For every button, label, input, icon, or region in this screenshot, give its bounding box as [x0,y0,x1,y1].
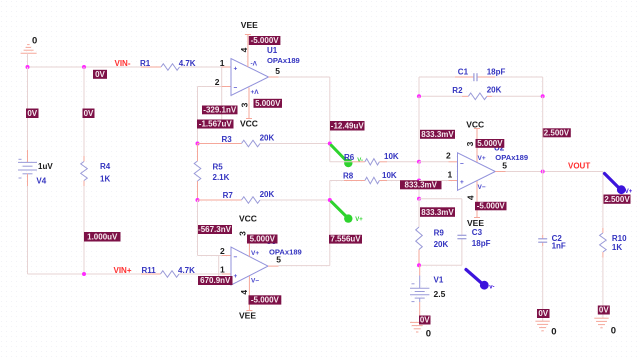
voltage box 0V (left rail) [26,109,39,119]
svg-text:2.1K: 2.1K [213,173,230,182]
svg-text:1K: 1K [612,243,622,252]
voltage source V4 battery symbol [18,161,37,163]
svg-text:VEE: VEE [467,218,484,228]
voltage box 0V (V1) [419,316,431,325]
capacitor C2 plates [538,238,547,240]
svg-text:VCC: VCC [240,118,258,128]
voltage box 0V (top wire) [93,70,107,79]
wire U2 output [495,171,505,173]
voltage box 833.3mV (R9 top) [420,207,455,217]
voltage box -567.3nV [197,225,232,234]
voltage box 2.500V (right rail) [542,128,571,137]
resistor R11 zigzag [161,271,180,278]
wire U1 label stub vertical [221,67,223,120]
svg-text:-5.000V: -5.000V [477,201,506,210]
svg-text:18pF: 18pF [487,67,506,76]
wire top rail y=67 [28,66,142,68]
svg-text:VCC: VCC [466,119,484,129]
resistor R10 zigzag [600,233,607,252]
U2 supply stub bottom (VEE) [476,181,478,218]
svg-text:−: − [460,160,464,167]
resistor R9 leads [418,199,420,227]
probe V+ blue (VOUT) [605,174,620,189]
resistor R7 leads [198,199,242,201]
svg-text:5.000V: 5.000V [250,235,276,244]
wire C3 bottom rail [419,264,462,266]
wire U1-out vertical [329,77,331,162]
resistor R6 zigzag [365,159,380,165]
node junction (542.7,171.5) [541,170,545,174]
capacitor C3 plates [457,234,466,236]
voltage box -329.1nV [202,106,238,115]
svg-text:+: + [234,273,238,280]
resistor R3 zigzag [242,140,261,147]
svg-text:670.9nV: 670.9nV [200,276,231,285]
svg-text:7.556uV: 7.556uV [330,235,361,244]
resistor R11 leads [141,273,161,275]
wire VOUT run [543,171,603,173]
svg-text:V+: V+ [355,217,363,223]
voltage box 833.3mV (pin1) [400,180,442,189]
svg-text:-567.3nV: -567.3nV [198,225,232,234]
svg-text:4: 4 [239,290,249,295]
resistor R3 leads [198,143,242,145]
probe V- blue (C3 bottom) [466,270,482,284]
svg-text:+: + [234,66,238,73]
svg-text:R3: R3 [222,135,233,144]
svg-text:20K: 20K [260,133,275,142]
svg-text:VOUT: VOUT [568,162,590,171]
svg-text:VIN-: VIN- [115,59,131,68]
capacitor C3 leads [461,199,463,236]
svg-text:833.3mV: 833.3mV [421,130,454,139]
wire U1 pin2 feedback [198,86,222,88]
svg-text:5.000V: 5.000V [255,99,281,108]
svg-text:20K: 20K [487,85,502,94]
svg-text:V−: V− [251,278,259,285]
resistor R1 zigzag [161,64,180,71]
svg-text:VEE: VEE [241,20,258,30]
svg-text:0: 0 [611,325,616,336]
V4 polarity marks [19,158,22,160]
svg-text:OPAx189: OPAx189 [267,56,300,65]
wire op2 output [268,265,279,267]
svg-text:-12.49uV: -12.49uV [331,122,365,131]
svg-text:-329.1nV: -329.1nV [203,105,237,114]
wire op2 label stub vertical [218,256,220,277]
node junction (419,198.8) [417,197,421,201]
svg-text:3: 3 [465,141,475,146]
wire C1 left vertical [418,77,420,96]
voltage box -5.000V (U1 VEE) [249,36,281,45]
resistor R9 zigzag [416,227,423,250]
voltage box 670.9nV [198,276,233,285]
svg-text:R5: R5 [213,162,224,171]
svg-text:2.500V: 2.500V [544,128,570,137]
svg-text:VIN+: VIN+ [114,266,132,275]
resistor R2 leads [419,95,462,97]
V1 polarity marks [412,283,415,285]
wire reference vertical x=419 [418,162,420,199]
svg-text:1: 1 [220,58,225,68]
svg-text:U1: U1 [267,46,278,55]
wire op2 pin2 stub [222,255,231,257]
wire ground stub [27,53,29,67]
svg-text:1: 1 [220,265,225,275]
svg-text:R4: R4 [100,162,111,171]
svg-text:0V: 0V [538,309,548,318]
node junction (419,265.2) [417,263,421,267]
svg-text:R7: R7 [223,191,234,200]
svg-text:0V: 0V [84,109,94,118]
svg-text:V+: V+ [251,250,259,257]
resistor R6 leads [330,161,352,163]
capacitor C2 leads [542,172,544,236]
svg-text:-5.000V: -5.000V [251,296,280,305]
svg-text:v-: v- [489,285,494,291]
voltage box 1.000uV [84,232,121,242]
svg-text:3: 3 [240,102,250,107]
voltage box 833.3mV (upper) [420,130,455,139]
voltage box -12.49uV [330,121,365,131]
svg-text:R6: R6 [344,153,355,162]
capacitor C1 plates [473,73,475,81]
svg-text:−: − [234,254,238,261]
voltage box 5.000V (op2 VCC) [247,235,278,244]
wire U1 pin2 stub [222,86,231,88]
ground 0 (top-left) [21,52,37,54]
svg-text:-Λ: -Λ [251,61,258,68]
svg-text:833.3mV: 833.3mV [405,180,438,189]
resistor R8 leads [330,180,344,182]
svg-text:2: 2 [215,77,220,87]
voltage box -5.000V (U2 VEE) [475,202,507,211]
svg-text:1nF: 1nF [552,241,566,250]
svg-text:R1: R1 [140,59,151,68]
svg-text:+: + [460,179,464,186]
svg-text:1: 1 [448,169,453,179]
probe V- green (R3 node) [331,145,346,160]
svg-text:5.000V: 5.000V [477,139,503,148]
node junction (84,67) [82,65,86,69]
svg-text:OPAx189: OPAx189 [495,153,528,162]
wire feedback left vertical x=419 [418,96,420,162]
wire bottom rail y=274 [28,273,142,275]
U1 supply stub top (VEE) [247,35,249,68]
wire left rail x=27.5 upper [27,67,29,150]
ground (V1) [410,321,424,323]
svg-text:4: 4 [466,195,476,200]
node junction (542.7,96.3) [541,94,545,98]
svg-text:V−: V− [478,184,486,191]
svg-text:18pF: 18pF [472,239,491,248]
svg-text:V-: V- [357,158,363,164]
wire C3 top rail [419,198,462,200]
wire U2 pin2 stub [419,161,449,163]
svg-text:1.000uV: 1.000uV [87,233,118,242]
wire right rail down to C2 [542,96,544,171]
svg-text:833.3mV: 833.3mV [421,208,454,217]
svg-text:+Λ: +Λ [251,89,260,96]
svg-text:0: 0 [551,326,556,337]
svg-text:10K: 10K [382,171,397,180]
probe V+ green (R7 node) [332,202,347,217]
wire op2 pin1 stub [222,273,231,275]
wire U1 pin1 stub [222,66,231,68]
node junction (27.5,67) [26,65,30,69]
svg-text:3: 3 [237,231,247,236]
svg-text:20K: 20K [260,190,275,199]
voltage box 2.500V (probe) [604,195,631,204]
node junction (329.8,200) [328,198,332,202]
svg-text:R2: R2 [452,86,463,95]
svg-text:2.5: 2.5 [434,289,446,299]
U2 supply stub top (VCC) [476,129,478,163]
node junction (419,96.3) [417,94,421,98]
wire VOUT vertical x=602.9 [602,172,604,229]
svg-text:1K: 1K [100,175,110,184]
svg-text:VEE: VEE [239,310,256,320]
svg-text:0V: 0V [95,70,105,79]
svg-text:-5.000V: -5.000V [251,36,280,45]
svg-text:10K: 10K [384,152,399,161]
resistor R5 leads [197,144,199,162]
wire U1 output [269,76,279,78]
voltage box 0V (C2) [537,309,550,318]
op-amp U2 triangle [458,153,496,191]
voltage box -5.000V (op2 VEE) [249,295,282,304]
voltage box 5.000V (U2 VCC) [476,139,505,148]
ground (C2) [535,320,549,322]
U3 supply stub top (VCC) [248,244,250,257]
svg-text:4.7K: 4.7K [179,59,196,68]
op-amp U1 triangle [231,59,269,96]
node junction (197.5,143.5) [196,142,200,146]
svg-text:-1.567uV: -1.567uV [199,120,233,129]
svg-text:5: 5 [275,66,280,76]
voltage box 7.556uV [329,235,362,244]
node junction (419,180.5) [417,179,421,183]
svg-text:0: 0 [426,328,431,339]
svg-text:0: 0 [32,36,37,47]
voltage box 0V (R10) [598,306,610,315]
svg-text:2: 2 [446,151,451,161]
node junction (329.8,143.5) [328,142,332,146]
svg-text:0V: 0V [27,109,37,118]
voltage box 5.000V (U1 VCC) [254,99,283,108]
voltage box -1.567uV [197,120,234,129]
svg-text:VCC: VCC [239,213,257,223]
svg-text:C3: C3 [472,228,483,237]
svg-text:2.500V: 2.500V [604,195,630,204]
resistor R1 leads [141,66,161,68]
svg-text:0V: 0V [420,316,430,325]
svg-text:V4: V4 [36,177,46,186]
node junction (197.5,200) [196,198,200,202]
voltage source V1 battery symbol [419,265,421,275]
wire op2-out vertical [329,181,331,266]
resistor R10 leads [602,228,604,233]
U1 supply stub bottom (VCC) [248,88,250,119]
svg-text:R10: R10 [612,234,627,243]
svg-text:R11: R11 [142,266,157,275]
voltage box 0V (R4 rail) [83,109,95,119]
wire op2 pin2 from R7 node [197,200,199,256]
resistor R4 zigzag [81,162,88,181]
svg-text:4.7K: 4.7K [178,266,195,275]
resistor R8 zigzag [365,177,380,183]
svg-text:V1: V1 [434,275,444,284]
svg-text:R8: R8 [343,172,354,181]
U3 supply stub bottom (VEE) [248,276,250,311]
resistor R7 zigzag [242,197,261,204]
svg-text:R9: R9 [434,228,445,237]
svg-text:1uV: 1uV [38,162,53,171]
resistor R5 zigzag [194,161,201,181]
resistor R4 leads [83,67,85,156]
wire C1 top rail [419,76,455,78]
wire U2 pin1 stub [419,180,449,182]
node junction (419,161.8) [417,160,421,164]
op-amp U3 triangle [231,247,268,285]
svg-text:C1: C1 [458,67,469,76]
ground (R10) [594,317,608,319]
svg-text:0V: 0V [599,306,609,315]
resistor R2 zigzag [468,93,487,100]
svg-text:−: − [234,85,238,92]
svg-text:20K: 20K [434,240,449,249]
svg-text:4: 4 [239,47,249,52]
wire left rail x=27.5 lower [27,174,29,186]
wire C1 right vertical [542,77,544,96]
svg-text:2: 2 [220,246,225,256]
svg-text:OPAx189: OPAx189 [269,248,302,257]
svg-text:V+: V+ [478,155,486,162]
node junction (84,274) [82,272,86,276]
